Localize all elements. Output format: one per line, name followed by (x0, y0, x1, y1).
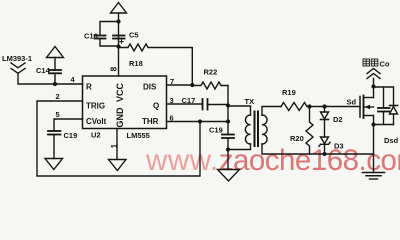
label pin 7 (170, 77, 174, 86)
wire primary bottom (228, 144, 251, 150)
input marker chevrons (11, 63, 25, 73)
svg-text:R18: R18 (129, 59, 143, 68)
text Co label (363, 59, 390, 69)
capacitor snubber (378, 87, 390, 125)
label LM555 (127, 131, 150, 140)
svg-text:C16: C16 (84, 32, 98, 41)
wire secondary bottom rail (262, 144, 374, 154)
junction dot (116, 19, 120, 23)
junction dot (226, 103, 230, 107)
svg-text:LM393-1: LM393-1 (2, 54, 32, 63)
wire Q pin3 (167, 103, 203, 105)
transformer TX (245, 97, 268, 146)
svg-text:TX: TX (245, 97, 255, 106)
label pin 3 (170, 96, 174, 105)
svg-text:C17: C17 (182, 96, 196, 105)
ground pin1 (109, 160, 127, 171)
diode D3 zener (319, 137, 344, 154)
junction dot (226, 147, 230, 151)
mosfet Sd (347, 87, 374, 125)
wire THR (167, 121, 229, 123)
label pin 6 (170, 114, 174, 123)
IC U2 LM555 (83, 76, 167, 129)
ground below C19 left (45, 159, 63, 170)
wire node to TX primary top (228, 106, 251, 115)
svg-text:C14: C14 (36, 66, 51, 75)
wire R22 down to node (227, 86, 229, 107)
junction dot (53, 82, 57, 86)
svg-text:2: 2 (56, 92, 60, 101)
svg-text:C19: C19 (64, 131, 78, 140)
svg-text:Q: Q (153, 102, 159, 111)
junction dot (190, 83, 194, 87)
diode Dsd (384, 106, 399, 146)
label pin 5 (56, 110, 60, 119)
capacitor C16 (84, 22, 119, 47)
earth ground (363, 173, 385, 180)
wire top rail right (374, 87, 394, 106)
resistor R18 (119, 44, 193, 68)
svg-text:LM555: LM555 (127, 131, 150, 140)
svg-text:VCC: VCC (115, 82, 125, 102)
svg-text:R19: R19 (282, 88, 296, 97)
capacitor C19 left (48, 131, 77, 159)
capacitor C17 (182, 96, 229, 110)
svg-text:R22: R22 (204, 68, 218, 77)
power symbol top (VCC) (111, 3, 127, 14)
wire TRIG loop (37, 101, 200, 176)
svg-text:GND: GND (115, 107, 125, 128)
wire bottom rail right (374, 124, 394, 126)
svg-text:Sd: Sd (347, 98, 357, 107)
label pin 1 (109, 144, 119, 149)
resistor R19 (281, 88, 360, 111)
capacitor C5 (113, 31, 139, 44)
output marker chevrons up (367, 69, 380, 79)
svg-text:THR: THR (142, 117, 159, 126)
diode D2 (321, 107, 343, 138)
label pin 4 (71, 75, 76, 84)
label pin 2 (56, 92, 60, 101)
svg-text:U2: U2 (91, 131, 101, 140)
svg-text:DIS: DIS (143, 83, 157, 92)
junction dot (371, 84, 375, 88)
wire pin4 (18, 73, 83, 84)
wire VCC rail (118, 13, 120, 76)
resistor R22 (192, 68, 228, 90)
capacitor C19 second (209, 126, 234, 170)
junction dot (371, 122, 375, 126)
svg-text:D3: D3 (334, 142, 344, 151)
svg-text:R: R (86, 83, 92, 92)
wire DIS (167, 84, 193, 86)
label U2 (91, 131, 101, 140)
junction dot (307, 104, 311, 108)
ground primary side (218, 170, 240, 182)
wire secondary top (262, 107, 281, 116)
svg-text:D2: D2 (333, 115, 343, 124)
wire drain (373, 79, 375, 87)
capacitor C14 (36, 58, 61, 85)
wire pin1 (116, 129, 118, 160)
svg-text:5: 5 (56, 110, 60, 119)
svg-text:TRIG: TRIG (86, 102, 105, 111)
junction dot (226, 119, 230, 123)
junction dot (322, 104, 326, 108)
svg-text:C19: C19 (209, 126, 223, 135)
svg-text:C5: C5 (129, 31, 139, 40)
svg-text:R20: R20 (290, 134, 304, 143)
wire R18 to DIS (191, 48, 193, 85)
junction dot (116, 44, 120, 48)
svg-text:CVolt: CVolt (86, 117, 107, 126)
svg-text:Co: Co (380, 60, 390, 69)
svg-text:Dsd: Dsd (384, 136, 399, 145)
text LM393-1 (2, 54, 32, 63)
svg-text:8: 8 (109, 67, 119, 72)
wire source to ground (373, 125, 375, 173)
resistor R20 (290, 107, 313, 155)
power symbol above C14 (47, 47, 64, 58)
junction dot (198, 119, 202, 123)
junction dot (323, 152, 327, 156)
wire pin5 (54, 119, 83, 131)
label pin 8 (109, 67, 119, 72)
wire node down to C19 (227, 106, 229, 135)
